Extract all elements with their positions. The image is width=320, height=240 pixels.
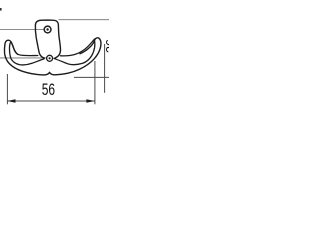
height dimension line — [104, 44, 106, 93]
left horn outer edge with curled tip — [4, 38, 100, 75]
hook centre plate with top hump — [35, 20, 60, 58]
centerline through bottom screw hole — [0, 57, 47, 59]
top screw hole centre dot — [46, 28, 48, 30]
svg-text:36: 36 — [104, 39, 109, 53]
left horn upper edge, tip inner leg and inner contour back to base (one stroke) — [9, 42, 44, 65]
bottom extension line of height dimension — [74, 76, 109, 78]
left extension line of width dimension — [6, 74, 8, 104]
top screw hole — [44, 26, 51, 33]
clipped mark top-left — [0, 8, 2, 11]
top tangent extension line — [59, 19, 110, 21]
right horn upper edge, tip inner leg and inner contour back to base (one stroke) — [55, 39, 95, 64]
width dimension line — [7, 100, 95, 102]
width dimension right arrowhead — [86, 99, 94, 103]
centerline through top screw hole — [0, 29, 44, 31]
svg-text:56: 56 — [42, 81, 55, 99]
width dimension left arrowhead — [7, 99, 15, 103]
bottom screw hole centre dot — [49, 57, 51, 59]
bottom screw hole — [47, 55, 53, 61]
right extension line of width dimension — [94, 61, 96, 104]
